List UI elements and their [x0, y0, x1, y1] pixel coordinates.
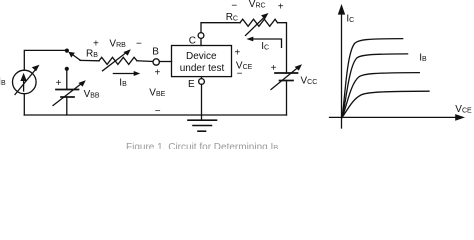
wire: box top to C terminal	[200, 38, 202, 45]
wire: left vertical below current source	[23, 94, 25, 115]
battery VCC (variable)	[271, 64, 302, 89]
svg-text:−: −	[136, 38, 142, 49]
svg-text:RC: RC	[226, 12, 238, 23]
svg-text:IB: IB	[419, 52, 427, 63]
svg-text:VCE: VCE	[455, 104, 472, 115]
curve IB3	[342, 73, 419, 118]
graph y-axis	[338, 4, 345, 128]
svg-text:Device: Device	[186, 51, 217, 62]
svg-text:+: +	[271, 63, 277, 74]
svg-text:VCC: VCC	[301, 76, 318, 87]
svg-text:RB: RB	[86, 48, 98, 59]
terminal E	[199, 79, 205, 85]
arrow IC (collector current)	[246, 37, 281, 48]
terminal C	[198, 33, 204, 39]
wire: E terminal to ground	[201, 84, 203, 120]
svg-text:+: +	[93, 38, 99, 49]
wire: box bottom to E terminal	[201, 77, 203, 79]
curve IB1 (top)	[342, 39, 403, 118]
arrow IB (base current)	[113, 71, 140, 76]
wire: left loop top rail	[24, 50, 66, 70]
wire: RB to node B	[137, 60, 153, 63]
svg-text:VBB: VBB	[84, 89, 100, 100]
wire: blade to RB	[80, 59, 99, 61]
svg-text:+: +	[278, 1, 284, 12]
svg-text:IC: IC	[346, 13, 354, 24]
svg-text:B: B	[152, 47, 159, 58]
svg-text:VBE: VBE	[149, 88, 165, 99]
node B	[153, 59, 159, 65]
wire: bottom rail	[24, 114, 286, 116]
svg-text:+: +	[234, 48, 240, 59]
svg-text:+: +	[56, 78, 62, 89]
device under test box	[172, 46, 232, 77]
ground	[188, 120, 217, 131]
svg-text:−: −	[155, 106, 161, 117]
svg-text:IB: IB	[0, 76, 6, 87]
graph x-axis	[330, 114, 466, 121]
wire: VBB to bottom rail	[66, 97, 68, 115]
wire: VCC to bottom rail	[286, 81, 288, 116]
caption (clipped at bottom)	[126, 142, 278, 153]
switch contact dot (upper)	[65, 49, 69, 53]
wire: C terminal up to top rail	[201, 23, 240, 33]
resistor RC (variable)	[240, 13, 278, 36]
svg-text:−: −	[237, 68, 243, 79]
current source IB	[12, 65, 39, 95]
curve IB4 (bottom)	[342, 91, 429, 117]
svg-text:IC: IC	[261, 41, 269, 52]
svg-text:C: C	[189, 35, 196, 46]
svg-text:IB: IB	[119, 77, 127, 88]
wire: VBB stub from lower contact	[66, 70, 68, 90]
curve IB2	[342, 54, 408, 118]
svg-text:+: +	[155, 68, 161, 79]
wire: node B to box	[159, 61, 171, 63]
switch contact dot (lower, VBB throw)	[65, 67, 69, 71]
svg-text:under test: under test	[180, 63, 225, 74]
battery VBB (variable)	[53, 80, 86, 105]
wire: RC to right vertical	[278, 23, 287, 73]
svg-text:VRB: VRB	[109, 39, 126, 50]
resistor RB (variable)	[99, 49, 137, 71]
svg-text:VRC: VRC	[249, 0, 266, 10]
switch blade	[68, 52, 80, 61]
svg-text:E: E	[188, 79, 195, 90]
svg-text:−: −	[231, 1, 237, 12]
